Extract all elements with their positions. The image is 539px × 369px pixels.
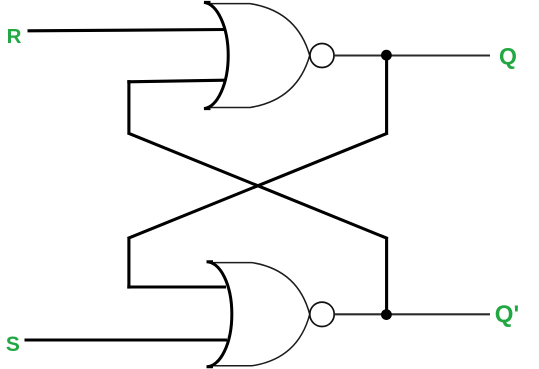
wire right lower vertical to node Qbar <box>385 237 388 315</box>
node Qbar junction dot <box>381 309 392 320</box>
NOR gate U2 input-side arc <box>207 262 232 367</box>
wire left upper vertical <box>127 80 130 134</box>
NOR gate U2 inversion bubble <box>310 302 334 326</box>
wire S input <box>25 338 228 341</box>
wire diagonal Qbar-to-U1 (top-right to bottom-left) <box>128 133 388 238</box>
NOR gate U1 input-side arc <box>204 2 228 108</box>
svg-text:S: S <box>6 333 20 356</box>
svg-text:Q: Q <box>499 43 517 69</box>
svg-text:Q': Q' <box>495 301 519 328</box>
node Q junction dot <box>381 50 392 61</box>
wire R input <box>28 30 226 31</box>
NOR gate U1 inversion bubble <box>310 44 334 68</box>
wire Q output <box>334 54 490 56</box>
wire U2 feedback input horizontal <box>127 285 226 288</box>
wire right upper vertical from node Q <box>385 56 388 135</box>
wire left lower vertical <box>127 237 130 289</box>
NOR gate U2 body <box>210 263 310 366</box>
wire diagonal Q-to-U2 (top-left to bottom-right) <box>128 133 388 239</box>
NOR gate U1 body <box>206 4 310 108</box>
wire U1 feedback input horizontal <box>127 80 225 82</box>
wire Qbar output <box>335 313 491 315</box>
svg-text:R: R <box>7 25 22 48</box>
